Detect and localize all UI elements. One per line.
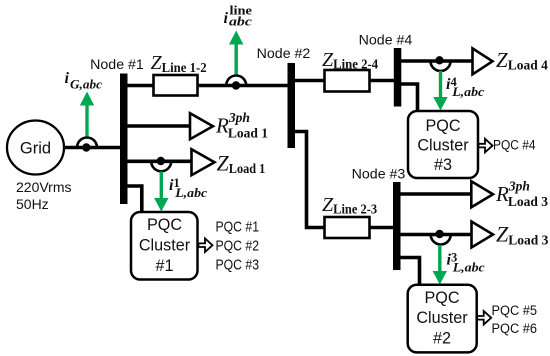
svg-text:R3phLoad 3: R3phLoad 3 bbox=[495, 178, 548, 209]
svg-text:iG,abc: iG,abc bbox=[65, 70, 103, 92]
load Z_Load 1 bbox=[192, 149, 215, 175]
resistor Z_Line 1-2 bbox=[154, 75, 198, 96]
svg-text:R3phLoad 1: R3phLoad 1 bbox=[215, 110, 268, 141]
current sensor for i_L1 bbox=[151, 157, 171, 172]
measurement arrow i_abc line bbox=[229, 31, 243, 75]
wire Node #3 to load Z_Load 3 bbox=[397, 233, 473, 237]
load Z_Load 3 bbox=[472, 222, 494, 248]
svg-text:PQC #2: PQC #2 bbox=[216, 239, 260, 255]
svg-text:Node #4: Node #4 bbox=[359, 32, 413, 48]
svg-text:Cluster: Cluster bbox=[417, 137, 469, 155]
svg-text:ZLoad 4: ZLoad 4 bbox=[496, 48, 548, 73]
svg-text:PQC: PQC bbox=[424, 289, 459, 307]
svg-text:PQC #1: PQC #1 bbox=[216, 219, 260, 235]
svg-text:Cluster: Cluster bbox=[139, 237, 191, 255]
load Z_Load 4 bbox=[473, 48, 493, 74]
svg-text:PQC #6: PQC #6 bbox=[492, 321, 538, 337]
measurement arrow i_L3 bbox=[433, 245, 447, 285]
wire Node #1 to PQC Cluster #1 bbox=[124, 186, 142, 213]
wire Grid to Node #1 bus bbox=[63, 146, 124, 150]
svg-text:PQC #5: PQC #5 bbox=[492, 303, 538, 319]
svg-text:ZLoad 1: ZLoad 1 bbox=[217, 151, 266, 177]
svg-text:50Hz: 50Hz bbox=[16, 196, 49, 212]
load R_Load 1 bbox=[190, 113, 213, 139]
measurement arrow i_L1 bbox=[154, 172, 168, 212]
resistor Z_Line 2-3 bbox=[325, 217, 370, 238]
svg-text:#3: #3 bbox=[434, 156, 452, 174]
output arrow of PQC Cluster #1 bbox=[199, 238, 213, 252]
svg-text:#2: #2 bbox=[433, 329, 451, 347]
wire resistor Z_Line 1-2 to Node #2 bbox=[198, 84, 290, 88]
output arrow of PQC Cluster #2 bbox=[477, 311, 491, 325]
bus Node #2 bbox=[288, 63, 296, 148]
wire Node #2 to resistor Z_Line 2-4 bbox=[291, 79, 325, 83]
svg-text:PQC: PQC bbox=[425, 117, 460, 135]
svg-text:Node #2: Node #2 bbox=[257, 46, 311, 62]
PQC Cluster #1 box bbox=[131, 212, 198, 280]
PQC Cluster #2 box bbox=[408, 285, 477, 353]
svg-text:220Vrms: 220Vrms bbox=[16, 179, 72, 195]
svg-text:ZLine 2-4: ZLine 2-4 bbox=[322, 49, 378, 73]
current sensor for i_G,abc bbox=[77, 138, 97, 152]
svg-text:ZLoad 3: ZLoad 3 bbox=[496, 222, 549, 248]
wire resistor Z_Line 2-4 to Node #4 bbox=[370, 79, 399, 83]
svg-text:PQC #4: PQC #4 bbox=[493, 137, 536, 153]
current sensor for i_abc line bbox=[226, 76, 246, 90]
svg-text:PQC: PQC bbox=[147, 216, 182, 234]
svg-text:i1L,abc: i1L,abc bbox=[169, 176, 207, 200]
svg-text:Grid: Grid bbox=[20, 140, 51, 158]
svg-text:#1: #1 bbox=[155, 257, 173, 275]
svg-text:PQC #3: PQC #3 bbox=[216, 258, 260, 274]
wire Node #2 down to resistor Z_Line 2-3 bbox=[293, 132, 326, 228]
output arrow of PQC Cluster #3 bbox=[479, 139, 493, 153]
svg-text:i3L,abc: i3L,abc bbox=[447, 250, 485, 274]
bus Node #4 bbox=[394, 48, 402, 107]
wire resistor Z_Line 2-3 to Node #3 bbox=[370, 226, 398, 230]
bus Node #1 bbox=[120, 74, 128, 205]
bus Node #3 bbox=[393, 182, 401, 270]
svg-text:ilineabc: ilineabc bbox=[224, 3, 253, 29]
svg-text:ZLine 2-3: ZLine 2-3 bbox=[322, 194, 377, 218]
wire Node #4 to load Z_Load 4 bbox=[398, 59, 474, 63]
measurement arrow i_G,abc bbox=[80, 92, 94, 137]
wire Node #3 to load R_Load 3 bbox=[397, 192, 473, 196]
svg-text:ZLine 1-2: ZLine 1-2 bbox=[151, 52, 207, 76]
PQC Cluster #3 box bbox=[408, 111, 478, 178]
wire Node #1 to load R_Load 1 bbox=[124, 124, 191, 128]
wire Node #1 to load Z_Load 1 bbox=[124, 160, 193, 164]
wire Node #4 to PQC Cluster #3 bbox=[398, 84, 418, 112]
svg-text:Cluster: Cluster bbox=[416, 309, 468, 327]
load R_Load 3 bbox=[471, 181, 493, 207]
svg-text:Node #3: Node #3 bbox=[352, 167, 406, 183]
wire Node #1 to resistor Z_Line 1-2 bbox=[124, 84, 154, 88]
measurement arrow i_L4 bbox=[433, 71, 447, 111]
svg-text:i4L,abc: i4L,abc bbox=[446, 75, 484, 99]
current sensor for i_L3 bbox=[431, 230, 451, 245]
current sensor for i_L4 bbox=[431, 56, 451, 71]
source generator Grid bbox=[7, 121, 64, 175]
wire Node #3 to PQC Cluster #2 bbox=[397, 258, 420, 285]
svg-text:Node #1: Node #1 bbox=[90, 57, 144, 73]
resistor Z_Line 2-4 bbox=[325, 70, 370, 92]
